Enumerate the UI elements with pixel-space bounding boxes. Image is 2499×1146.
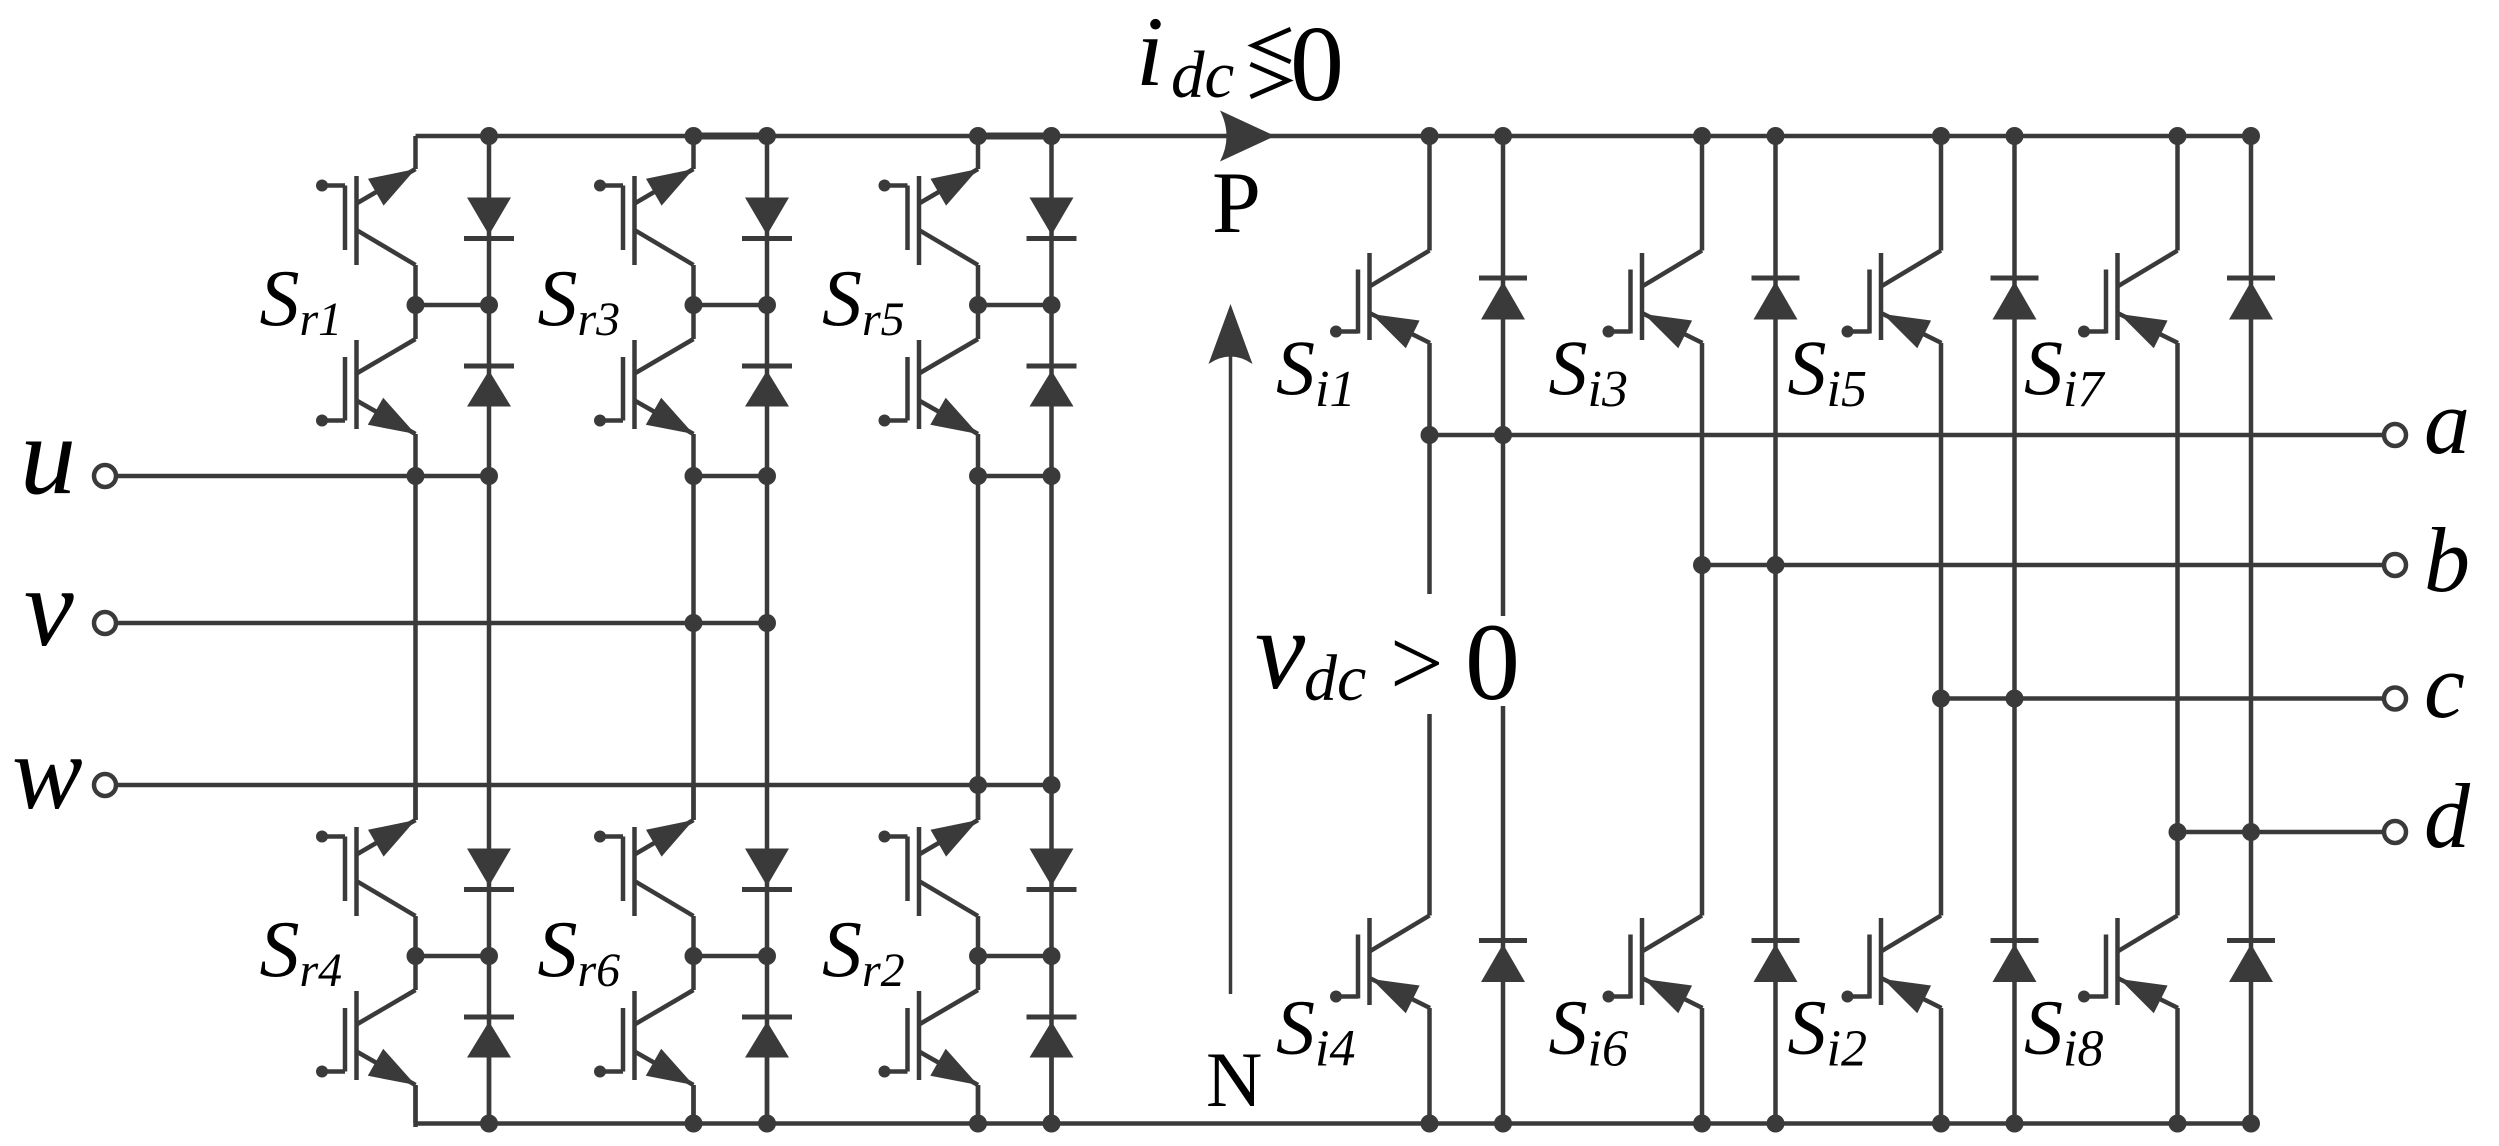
svg-text:i: i	[1136, 0, 1164, 107]
svg-text:a: a	[2424, 371, 2470, 473]
svg-text:b: b	[2424, 509, 2470, 611]
svg-text:d: d	[2424, 765, 2471, 867]
svg-text:>: >	[1390, 610, 1444, 716]
svg-text:v: v	[24, 546, 74, 670]
svg-text:dc: dc	[1171, 38, 1235, 112]
svg-text:0: 0	[1290, 5, 1344, 124]
svg-text:w: w	[12, 714, 83, 831]
svg-text:dc: dc	[1304, 642, 1366, 715]
svg-text:0: 0	[1465, 601, 1520, 723]
svg-text:u: u	[20, 394, 76, 518]
svg-text:P: P	[1212, 155, 1261, 252]
svg-text:N: N	[1206, 1036, 1262, 1123]
svg-text:v: v	[1255, 588, 1306, 713]
svg-text:c: c	[2424, 635, 2465, 737]
